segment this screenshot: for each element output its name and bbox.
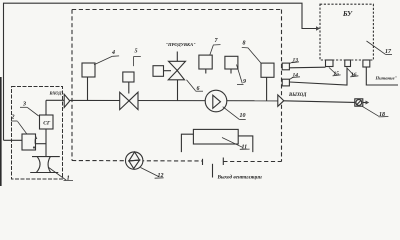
svg-text:6: 6	[197, 86, 200, 92]
svg-text:1: 1	[67, 175, 70, 182]
svg-text:12: 12	[158, 173, 164, 179]
svg-text:13: 13	[293, 58, 299, 64]
svg-text:Питание": Питание"	[375, 75, 398, 80]
svg-text:"ПРОДУВКА": "ПРОДУВКА"	[166, 42, 197, 47]
svg-text:17: 17	[385, 49, 392, 55]
svg-text:БУ: БУ	[342, 10, 353, 18]
svg-text:СГ: СГ	[43, 121, 51, 127]
svg-text:10: 10	[240, 113, 246, 119]
svg-text:8: 8	[243, 41, 246, 47]
svg-text:11: 11	[242, 145, 248, 151]
svg-text:7: 7	[215, 38, 219, 44]
svg-text:9: 9	[243, 79, 246, 85]
svg-text:16: 16	[351, 72, 357, 78]
svg-text:5: 5	[135, 49, 138, 55]
svg-text:4: 4	[111, 50, 115, 56]
svg-text:18: 18	[379, 112, 385, 118]
svg-text:ВХОД: ВХОД	[49, 91, 63, 96]
svg-text:2: 2	[11, 114, 15, 120]
svg-text:14: 14	[293, 73, 299, 79]
svg-text:3: 3	[22, 102, 26, 108]
svg-text:15: 15	[334, 71, 340, 77]
svg-text:Выход вентиляции: Выход вентиляции	[217, 173, 262, 180]
svg-text:ВЫХОД: ВЫХОД	[288, 93, 307, 98]
